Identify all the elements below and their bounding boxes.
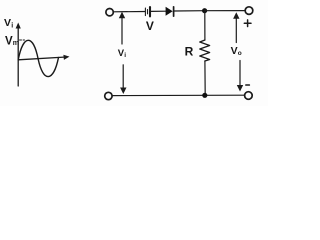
svg-text:V: V bbox=[146, 19, 154, 33]
svg-text:R: R bbox=[185, 45, 194, 59]
battery V: plate 2 (short) bbox=[147, 10, 149, 14]
node: bottom junction bbox=[202, 93, 207, 98]
terminal: output top bbox=[245, 7, 253, 15]
node: top junction bbox=[202, 8, 207, 13]
terminal: output bottom bbox=[245, 92, 253, 100]
svg-text:V: V bbox=[5, 36, 13, 48]
wire: top, input terminal to battery bbox=[113, 11, 145, 13]
graph vertical axis bbox=[17, 26, 19, 86]
sine wave bbox=[18, 40, 58, 76]
arrow Vo: lower segment (points down to bottom wire) bbox=[239, 61, 241, 86]
resistor R: zigzag body bbox=[200, 40, 210, 61]
dashed Vm reference line bbox=[20, 39, 25, 41]
svg-text:o: o bbox=[238, 50, 242, 57]
svg-text:V: V bbox=[4, 17, 11, 29]
label Vo (output voltage) bbox=[231, 45, 242, 57]
graph horizontal axis bbox=[18, 57, 66, 60]
terminal: input top bbox=[106, 9, 113, 16]
svg-text:i: i bbox=[124, 52, 126, 59]
wire: bottom, input terminal to bottom junction to output terminal bbox=[112, 94, 245, 96]
battery V: plate 1 bbox=[144, 8, 146, 16]
terminal: input bottom bbox=[105, 92, 112, 99]
diode D: cathode bar bbox=[173, 7, 175, 16]
resistor R: bottom lead bbox=[204, 61, 206, 95]
label Vi (graph y-axis) bbox=[4, 17, 13, 30]
label Vi (input voltage) bbox=[118, 48, 127, 59]
wire: top junction to output terminal bbox=[205, 10, 246, 12]
svg-text:m: m bbox=[13, 40, 19, 47]
arrow Vo: upper segment (points up to top wire) bbox=[235, 18, 237, 43]
minus sign (output polarity) bbox=[246, 84, 250, 86]
battery V: plate 3 (thick) bbox=[149, 7, 151, 16]
svg-text:V: V bbox=[231, 45, 238, 57]
plus sign (output polarity) bbox=[244, 20, 251, 27]
label Vm bbox=[5, 36, 19, 48]
arrow Vi: upper segment (points up to top wire) bbox=[121, 18, 123, 45]
resistor R: top lead bbox=[204, 11, 206, 40]
svg-text:i: i bbox=[11, 23, 13, 30]
wire: battery to diode bbox=[151, 10, 165, 12]
wire: diode to top junction bbox=[175, 10, 205, 12]
arrow Vi: lower segment (points down to bottom wire) bbox=[122, 65, 124, 89]
diode D: anode triangle bbox=[166, 7, 173, 16]
